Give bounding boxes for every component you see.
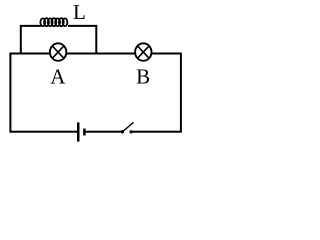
wire: parallel branch right vertical	[95, 26, 97, 54]
svg-text:A: A	[50, 65, 66, 89]
svg-text:B: B	[136, 65, 150, 89]
wire: parallel branch top-left horizontal	[20, 25, 41, 27]
battery gap	[79, 129, 83, 134]
battery long plate	[77, 122, 80, 141]
inductor L coil	[40, 18, 67, 26]
switch lever	[122, 122, 133, 132]
wire: parallel branch left vertical	[20, 26, 22, 54]
battery short plate	[83, 129, 85, 136]
lamp B	[135, 43, 151, 61]
svg-text:L: L	[73, 0, 86, 24]
switch contact dot left	[121, 130, 124, 133]
lamp A	[50, 43, 66, 61]
switch gap	[124, 129, 130, 134]
switch contact dot right	[130, 130, 133, 133]
wire: parallel branch top-right horizontal	[68, 25, 97, 27]
wire: main circuit loop	[10, 54, 181, 132]
